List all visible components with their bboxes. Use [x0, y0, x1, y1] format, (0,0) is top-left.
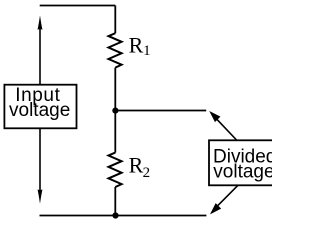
arrowhead upper-left: [210, 112, 219, 121]
svg-text:R: R: [129, 153, 144, 178]
wire vertical segment (node to R2): [114, 111, 116, 153]
resistor R2: [109, 153, 122, 187]
svg-text:voltage: voltage: [9, 100, 70, 121]
resistor R1: [109, 33, 122, 67]
divided voltage pointer lower shaft: [217, 186, 238, 207]
node junction dot lower: [112, 212, 118, 218]
divided voltage label box: [209, 140, 283, 185]
arrowhead up: [38, 15, 43, 29]
wire top horizontal: [40, 5, 116, 7]
wire vertical middle segment (R1 to node): [114, 68, 116, 111]
input voltage measurement arrow lower shaft: [39, 128, 41, 191]
divided voltage pointer upper shaft: [217, 119, 237, 140]
svg-text:2: 2: [143, 165, 151, 181]
svg-text:R: R: [129, 32, 144, 57]
svg-text:1: 1: [143, 43, 151, 59]
input voltage label box: [4, 85, 76, 129]
arrowhead down: [38, 190, 43, 204]
wire bottom horizontal: [40, 215, 207, 217]
input voltage measurement arrow upper shaft: [39, 28, 41, 85]
arrowhead lower-left: [211, 204, 220, 213]
wire middle horizontal (divider tap): [115, 110, 206, 112]
node junction dot upper: [112, 108, 118, 114]
svg-text:voltage: voltage: [213, 162, 272, 183]
wire vertical upper segment (top wire to R1): [114, 6, 116, 34]
wire vertical lower segment (R2 to bottom wire): [114, 187, 116, 216]
